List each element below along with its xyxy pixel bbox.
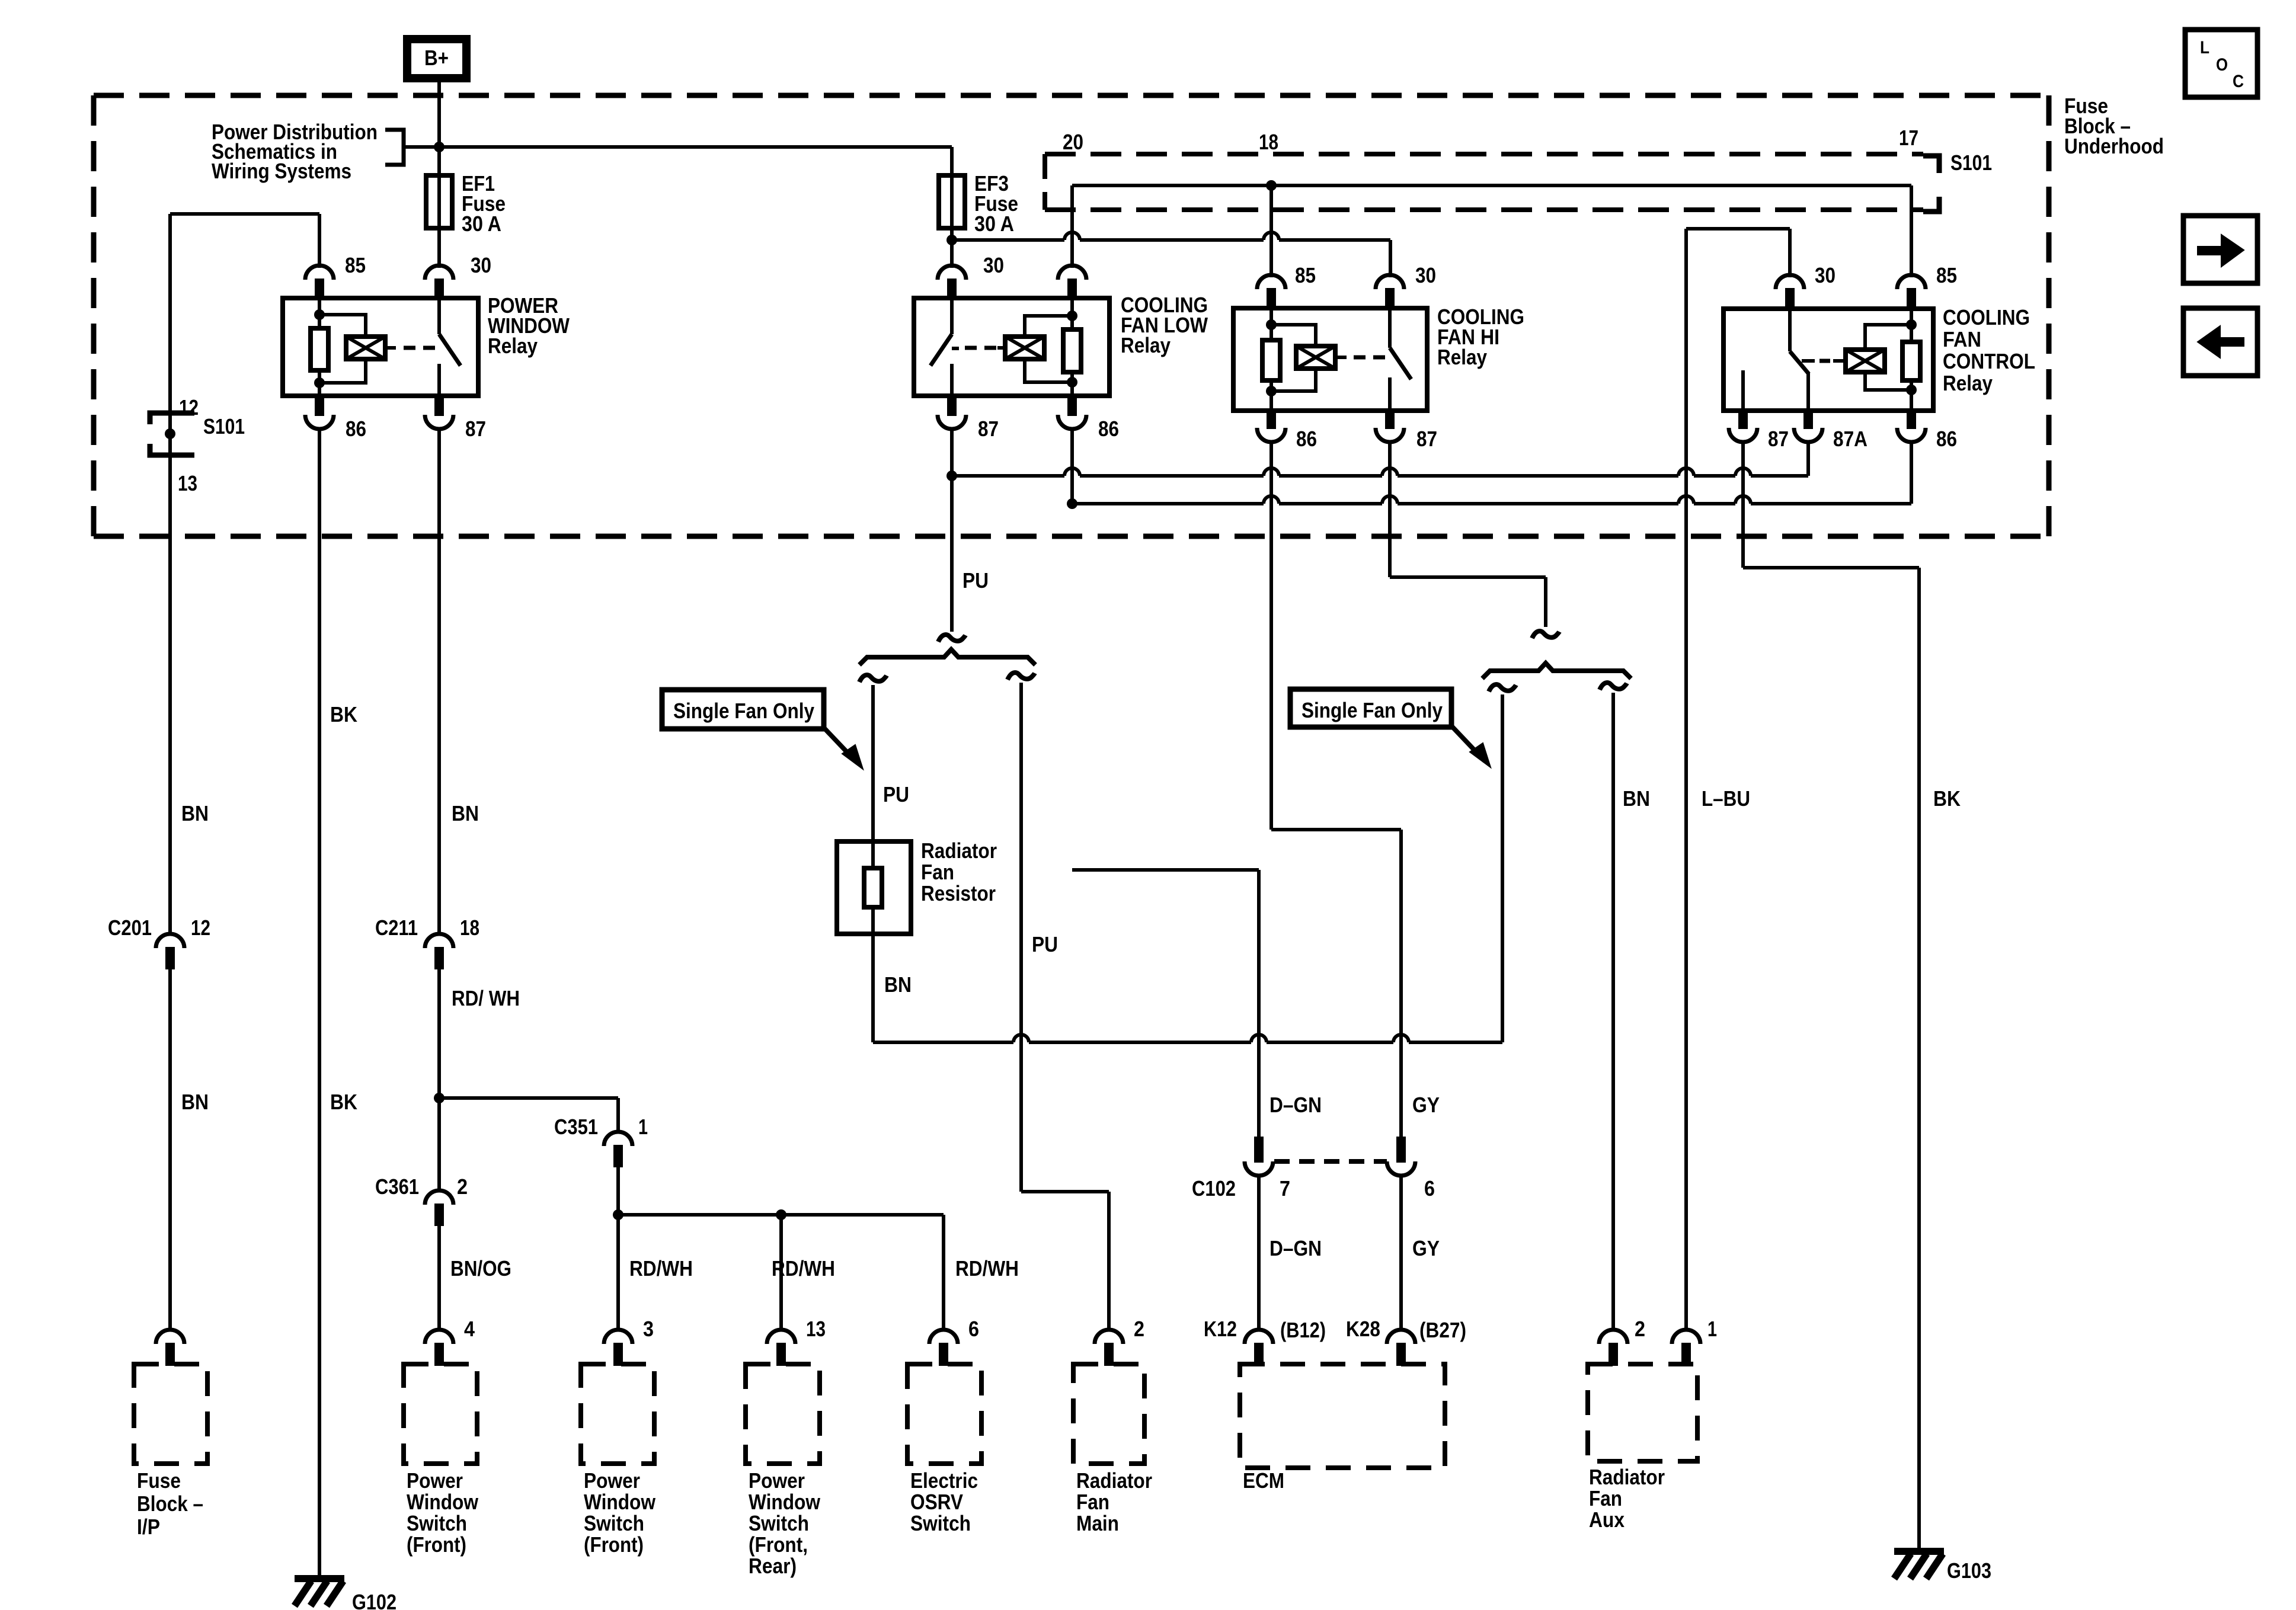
pin 86 connector xyxy=(1067,394,1077,416)
svg-text:K12: K12 xyxy=(1204,1317,1237,1341)
component Electric OSRV Switch xyxy=(929,1330,958,1344)
pin 86 connector xyxy=(1907,409,1916,429)
fan hi switch xyxy=(1388,308,1392,348)
svg-text:(B27): (B27) xyxy=(1419,1318,1466,1342)
svg-text:4: 4 xyxy=(464,1317,475,1341)
connector C102 association dashes xyxy=(1274,1159,1387,1164)
wire break tilde right xyxy=(1008,673,1035,680)
wire PU to radiator fan resistor xyxy=(871,685,875,841)
fuse EF1 30A xyxy=(437,149,441,178)
wire break tilde left xyxy=(1489,684,1516,692)
svg-text:ECM: ECM xyxy=(1243,1468,1284,1493)
wire break tilde right xyxy=(1600,683,1627,690)
connector C102 pin 6 xyxy=(1396,1137,1406,1163)
svg-text:85: 85 xyxy=(1936,263,1957,287)
wire fan control 87 to ground corner xyxy=(1743,566,1919,569)
svg-text:RD/ WH: RD/ WH xyxy=(452,986,520,1010)
svg-text:RD/WH: RD/WH xyxy=(955,1256,1019,1281)
wire bus 86 to 86 xyxy=(1072,502,1264,505)
node coil bus to fan hi 85 xyxy=(1266,180,1277,191)
wire to power window relay 85 xyxy=(170,212,319,216)
fan low switch xyxy=(950,298,954,334)
pin 30 connector xyxy=(938,265,966,280)
B+ power symbol xyxy=(407,39,466,78)
wire fan hi 86 to C102 6 xyxy=(1271,828,1401,831)
svg-text:2: 2 xyxy=(1134,1317,1144,1341)
svg-text:L: L xyxy=(2200,38,2209,57)
S101 dashed bus net 20/18/17 xyxy=(1045,152,1923,156)
fan low coil xyxy=(1005,337,1044,359)
svg-text:BN: BN xyxy=(884,972,912,997)
svg-text:BN: BN xyxy=(181,1090,209,1114)
fuse block underhood dashed outline xyxy=(94,93,2049,98)
svg-text:30: 30 xyxy=(1415,263,1436,287)
svg-text:C201: C201 xyxy=(108,916,152,940)
svg-text:B+: B+ xyxy=(424,46,449,70)
svg-text:17: 17 xyxy=(1899,126,1918,150)
pin 30 connector xyxy=(425,265,453,280)
connector C201 xyxy=(156,934,184,948)
fan control switch xyxy=(1788,309,1792,351)
connector C102 pin 7 xyxy=(1254,1137,1264,1163)
component Radiator Fan Resistor box xyxy=(837,841,911,934)
connector C351 xyxy=(604,1132,632,1146)
wire C351 down xyxy=(616,1167,620,1330)
svg-text:87: 87 xyxy=(1768,427,1789,451)
svg-text:S101: S101 xyxy=(203,414,245,438)
wire B+ down to junction xyxy=(437,82,441,149)
fan low actuator dashes xyxy=(952,347,959,350)
connector C361 xyxy=(425,1190,453,1205)
harness brace single fan 2 xyxy=(1482,663,1631,678)
wire bus 87 to 87A xyxy=(952,474,1064,478)
wire PU to radiator fan main xyxy=(1019,683,1023,1192)
relay K3 COOLING FAN HI Relay box xyxy=(1233,308,1427,411)
svg-text:Single Fan Only: Single Fan Only xyxy=(673,699,814,723)
wire BN to radiator fan aux 2 xyxy=(1611,693,1615,1330)
wire break tilde xyxy=(938,635,965,642)
wire PU from fan low 87 xyxy=(950,476,954,632)
svg-text:3: 3 xyxy=(643,1317,654,1341)
fan control coil xyxy=(1846,350,1885,372)
svg-text:Single Fan Only: Single Fan Only xyxy=(1302,698,1443,722)
wire BN below resistor xyxy=(871,934,875,1042)
svg-text:87: 87 xyxy=(1416,427,1437,451)
svg-text:2: 2 xyxy=(1635,1317,1645,1341)
pin 85 connector xyxy=(1897,275,1926,289)
wire fan hi 87 corner to brace xyxy=(1390,575,1546,579)
wire BN power window relay 87 xyxy=(437,429,441,934)
svg-text:87A: 87A xyxy=(1833,427,1868,451)
wire EF3 output to cooling fan hi 30 xyxy=(952,238,1064,242)
wire fan low 86 down xyxy=(1070,429,1074,504)
svg-text:GY: GY xyxy=(1412,1236,1440,1260)
node S101 xyxy=(165,428,175,439)
svg-text:L–BU: L–BU xyxy=(1702,786,1750,811)
svg-text:BK: BK xyxy=(330,702,357,726)
svg-text:D–GN: D–GN xyxy=(1269,1236,1322,1260)
svg-text:30: 30 xyxy=(471,253,491,277)
svg-text:BK: BK xyxy=(330,1090,357,1114)
component Power Window Switch Front 1 xyxy=(425,1330,453,1344)
svg-text:PU: PU xyxy=(962,568,989,593)
pin 87 connector xyxy=(1738,409,1748,429)
PW relay coil actuator dashes xyxy=(385,346,396,350)
PW relay resistor branch xyxy=(318,298,321,328)
svg-text:BN: BN xyxy=(181,801,209,825)
svg-text:RD/WH: RD/WH xyxy=(772,1256,835,1281)
svg-text:BN: BN xyxy=(1623,786,1650,811)
wire RD/WH down xyxy=(437,969,441,1190)
svg-text:1: 1 xyxy=(1707,1317,1717,1341)
svg-text:87: 87 xyxy=(978,417,999,441)
harness brace single fan xyxy=(859,649,1035,665)
wire fan low 86 to C102 7 xyxy=(1072,868,1259,872)
svg-text:BN: BN xyxy=(452,801,479,825)
svg-text:86: 86 xyxy=(1936,427,1957,451)
svg-text:85: 85 xyxy=(345,253,366,277)
pin 87 connector xyxy=(434,394,444,416)
arrow box left xyxy=(2183,308,2257,376)
pin 87 connector xyxy=(947,394,957,416)
fan hi actuator dashes xyxy=(1335,356,1347,359)
connector C211 xyxy=(425,934,453,948)
svg-text:12: 12 xyxy=(191,916,210,940)
svg-text:6: 6 xyxy=(1424,1176,1435,1201)
ground G103 xyxy=(1894,1548,1944,1555)
PW relay switch xyxy=(437,298,441,334)
wire L-BU feed down xyxy=(1684,229,1688,1330)
svg-text:6: 6 xyxy=(968,1317,979,1341)
component Radiator Fan Main xyxy=(1095,1330,1123,1344)
wire BN/OG down xyxy=(437,1226,441,1330)
pin 86 connector xyxy=(1267,409,1276,429)
splice S101 right bracket xyxy=(1923,156,1939,173)
wire single fan branch down xyxy=(1501,694,1504,1042)
wire fan hi 86 down xyxy=(1269,442,1273,830)
node EF3 output xyxy=(946,235,957,245)
svg-text:GY: GY xyxy=(1412,1093,1440,1117)
component Fuse Block I/P xyxy=(156,1330,184,1344)
svg-text:13: 13 xyxy=(178,471,197,495)
svg-text:30: 30 xyxy=(1815,263,1835,287)
svg-text:86: 86 xyxy=(346,417,366,441)
fan control pin 87 stub xyxy=(1741,370,1745,411)
fan hi resistor branch xyxy=(1269,308,1273,340)
pin 85 connector xyxy=(305,265,334,280)
svg-text:87: 87 xyxy=(465,417,486,441)
wire EF1 to pin 30 xyxy=(437,228,441,268)
svg-text:K28: K28 xyxy=(1346,1317,1380,1341)
pin 85 connector xyxy=(1257,275,1285,289)
svg-text:G103: G103 xyxy=(1947,1558,1991,1583)
wire PU to radiator fan main pin 2 xyxy=(1021,1190,1109,1193)
pin 30 connector xyxy=(1776,275,1804,289)
callout Single Fan Only left xyxy=(662,690,824,729)
splice S101 left bracket xyxy=(150,413,194,424)
node B+ junction xyxy=(434,142,445,152)
svg-text:20: 20 xyxy=(1063,130,1083,154)
svg-text:PU: PU xyxy=(1032,932,1058,956)
fuse EF3 30A xyxy=(939,175,965,228)
LOC reference box xyxy=(2185,30,2257,97)
wire to C351 xyxy=(439,1096,618,1100)
node RD/WH distribution xyxy=(613,1209,623,1220)
relay K1 POWER WINDOW Relay box xyxy=(283,298,478,396)
svg-text:30: 30 xyxy=(983,253,1004,277)
component Power Window Switch Front 2 xyxy=(604,1330,632,1344)
fan control actuator dashes xyxy=(1802,359,1815,363)
wire break tilde xyxy=(1532,631,1559,638)
arrow box right xyxy=(2183,216,2257,283)
resistor element xyxy=(864,868,882,907)
pin 30 connector xyxy=(1376,275,1404,289)
relay K4 COOLING FAN CONTROL Relay box xyxy=(1723,309,1933,411)
wire resistor BN to single-fan PU branch xyxy=(873,1041,1013,1044)
svg-text:C211: C211 xyxy=(375,916,418,940)
fan low resistor branch xyxy=(1070,298,1074,329)
wire RD/WH bus xyxy=(618,1213,944,1217)
wire break tilde left xyxy=(859,675,887,682)
pin 86 connector xyxy=(315,394,324,416)
svg-text:C: C xyxy=(2233,72,2244,91)
ground G102 xyxy=(295,1575,344,1582)
svg-text:18: 18 xyxy=(460,916,479,940)
wire feed to EF3 xyxy=(439,145,952,149)
wire fan low 87 down xyxy=(950,429,954,476)
svg-text:C102: C102 xyxy=(1192,1176,1236,1201)
svg-text:BK: BK xyxy=(1933,786,1961,811)
svg-text:D–GN: D–GN xyxy=(1269,1093,1322,1117)
svg-text:86: 86 xyxy=(1296,427,1317,451)
svg-text:C351: C351 xyxy=(554,1115,598,1139)
wire EF3 to node xyxy=(950,228,954,268)
PW relay coil xyxy=(319,315,366,337)
wire fan low coil supply bus xyxy=(1072,184,1911,187)
fan hi coil xyxy=(1271,325,1316,346)
svg-text:86: 86 xyxy=(1098,417,1119,441)
svg-text:13: 13 xyxy=(806,1317,826,1341)
wire fan control 30 feed xyxy=(1687,227,1790,231)
svg-text:7: 7 xyxy=(1280,1176,1290,1201)
pin 87 connector xyxy=(1385,409,1395,429)
svg-text:(B12): (B12) xyxy=(1280,1318,1326,1342)
svg-text:O: O xyxy=(2216,55,2228,75)
callout Single Fan Only right xyxy=(1290,689,1451,727)
wire fan hi 87 down xyxy=(1388,442,1392,577)
svg-text:BN/OG: BN/OG xyxy=(450,1256,511,1281)
svg-text:12: 12 xyxy=(179,395,199,420)
node RD/WH branch xyxy=(434,1093,445,1103)
component ECM xyxy=(1245,1330,1273,1344)
fan control resistor branch xyxy=(1910,309,1913,342)
component Power Window Switch Front Rear xyxy=(767,1330,795,1344)
svg-text:2: 2 xyxy=(457,1174,468,1199)
svg-text:C361: C361 xyxy=(375,1174,419,1199)
pin 87A connector xyxy=(1803,409,1813,429)
wire BK power window relay 86 to G102 xyxy=(318,429,321,1576)
wire fan control 87 down xyxy=(1741,442,1745,568)
bracket to power distribution xyxy=(385,130,404,165)
component Radiator Fan Aux xyxy=(1599,1330,1627,1344)
svg-text:18: 18 xyxy=(1259,130,1278,154)
svg-text:PU: PU xyxy=(883,782,909,806)
svg-text:RD/WH: RD/WH xyxy=(629,1256,693,1281)
relay K2 COOLING FAN LOW Relay box xyxy=(914,298,1109,396)
svg-text:G102: G102 xyxy=(352,1590,396,1610)
svg-text:S101: S101 xyxy=(1950,151,1992,175)
fan low coil pin connector xyxy=(1058,265,1086,280)
svg-text:1: 1 xyxy=(638,1115,648,1139)
svg-text:85: 85 xyxy=(1295,263,1316,287)
